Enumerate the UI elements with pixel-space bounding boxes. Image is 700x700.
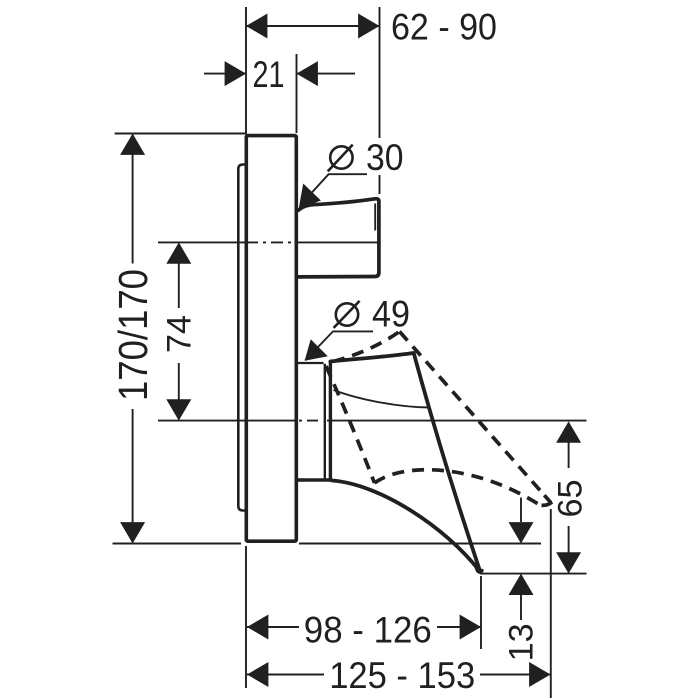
svg-text:98 - 126: 98 - 126 — [304, 610, 432, 651]
svg-text:49: 49 — [372, 293, 410, 334]
svg-text:74: 74 — [160, 315, 198, 353]
svg-text:21: 21 — [253, 54, 285, 95]
svg-text:13: 13 — [503, 623, 541, 661]
svg-text:65: 65 — [552, 480, 590, 518]
svg-text:30: 30 — [366, 137, 404, 178]
svg-text:125 - 153: 125 - 153 — [329, 655, 475, 696]
svg-text:62 - 90: 62 - 90 — [391, 7, 497, 48]
svg-text:170/170: 170/170 — [110, 269, 156, 401]
